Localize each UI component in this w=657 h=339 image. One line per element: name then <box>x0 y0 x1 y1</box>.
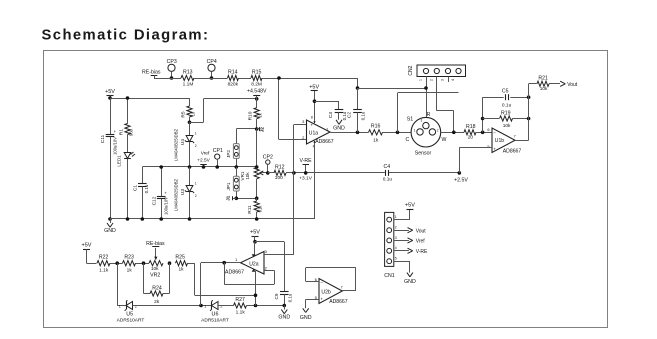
svg-text:2: 2 <box>437 128 439 132</box>
svg-text:R: R <box>427 112 431 118</box>
wire J2 to Vref rail <box>256 129 258 167</box>
wire rail corner down to C2 node <box>357 78 359 88</box>
power +5V (bottom left) <box>83 249 90 251</box>
svg-text:ADR510ART: ADR510ART <box>117 318 145 324</box>
svg-text:U2a: U2a <box>249 262 259 268</box>
capacitor C1 <box>142 167 144 183</box>
svg-text:3: 3 <box>441 79 445 81</box>
capacitor C4 <box>385 170 387 176</box>
svg-text:CP4: CP4 <box>207 59 217 65</box>
svg-text:R18: R18 <box>466 124 476 130</box>
svg-text:LM4040B25IDBZ: LM4040B25IDBZ <box>173 178 178 211</box>
svg-text:1.1k: 1.1k <box>99 268 109 274</box>
svg-text:10k: 10k <box>245 172 250 180</box>
node V-RE label <box>303 164 310 166</box>
wire +5V left column down <box>110 98 112 134</box>
node U2a output drop <box>199 304 203 308</box>
resistor R25 <box>176 261 188 266</box>
svg-text:1: 1 <box>419 79 423 81</box>
ground GND (U2a/C9) <box>284 306 286 310</box>
svg-text:6: 6 <box>487 127 490 132</box>
svg-text:1.1M: 1.1M <box>183 82 194 88</box>
connector CN2 <box>417 65 466 77</box>
wire +5V rail <box>110 98 190 100</box>
node C12/GND-rail <box>159 217 163 221</box>
svg-text:C3: C3 <box>328 112 334 118</box>
wire V-RE to U2a pin3 (vertical) <box>293 173 295 255</box>
wire CN2 pin3 stub <box>448 77 450 83</box>
testpoint CP1 <box>215 154 220 159</box>
svg-text:0.1u: 0.1u <box>361 111 366 120</box>
node U2a output/feedback junction <box>222 261 226 265</box>
svg-text:7: 7 <box>513 134 516 139</box>
svg-text:V-RE: V-RE <box>416 249 428 255</box>
svg-text:10: 10 <box>190 111 195 116</box>
svg-text:R5: R5 <box>180 111 186 117</box>
wire U2a feedback loop <box>224 263 226 285</box>
capacitor C2 <box>357 88 359 110</box>
svg-text:2: 2 <box>195 144 197 148</box>
svg-text:S1: S1 <box>407 116 414 122</box>
svg-text:1: 1 <box>235 257 238 262</box>
node R23/VR2 junction <box>142 261 146 265</box>
wire R24 right riser <box>169 263 171 293</box>
svg-text:GND: GND <box>300 315 312 321</box>
wire U2b feedback loop <box>306 281 319 283</box>
wire ground rail <box>110 218 315 220</box>
power +4.548V label <box>256 95 258 99</box>
svg-text:100u/10V: 100u/10V <box>163 197 168 215</box>
node R18/feedback junction <box>481 131 485 135</box>
resistor R24 <box>144 293 151 295</box>
svg-text:+5V: +5V <box>82 243 92 249</box>
node R16/CN2-pin4 junction <box>396 131 400 135</box>
svg-text:3: 3 <box>265 249 268 254</box>
sensor S1 <box>411 117 441 147</box>
svg-text:10k: 10k <box>151 266 159 272</box>
svg-text:8: 8 <box>311 115 313 119</box>
schematic border frame <box>44 51 608 328</box>
svg-text:J2: J2 <box>259 127 264 133</box>
svg-text:2: 2 <box>195 194 197 198</box>
op-amp U2b AD8667 <box>319 279 342 304</box>
wire V-RE rail <box>294 172 385 174</box>
wire JP1 to J1 node <box>236 191 238 198</box>
capacitor C3 <box>335 109 344 111</box>
svg-text:AD8667: AD8667 <box>329 299 348 305</box>
node U4/U3/Vref junction <box>188 165 192 169</box>
svg-text:Vref: Vref <box>416 239 426 245</box>
svg-text:1: 1 <box>395 215 397 219</box>
resistor R19 <box>483 118 499 120</box>
svg-text:2k: 2k <box>154 299 160 305</box>
svg-text:AD8667: AD8667 <box>503 149 522 155</box>
svg-text:U1b: U1b <box>495 138 505 144</box>
svg-text:1: 1 <box>195 181 197 185</box>
svg-text:Vout: Vout <box>567 82 578 88</box>
svg-text:R1: R1 <box>119 129 125 135</box>
wire U1b pin5 to +2.5V <box>459 147 492 149</box>
node R5 bottom junction <box>188 121 192 125</box>
svg-text:R10: R10 <box>247 111 253 120</box>
op-amp U1b AD8667 <box>492 128 515 153</box>
wire U2a pin3 to V-RE <box>264 254 294 256</box>
potentiometer VR2 <box>149 261 163 266</box>
ground GND (C3) <box>338 112 340 119</box>
wire +4.548V net <box>190 122 204 124</box>
svg-text:RE-bias: RE-bias <box>142 69 161 75</box>
resistor R15 <box>251 75 262 80</box>
svg-text:1: 1 <box>326 126 329 131</box>
svg-text:+: + <box>310 123 313 128</box>
capacitor C5 <box>483 97 504 99</box>
svg-text:0.1u: 0.1u <box>342 111 347 120</box>
svg-text:3: 3 <box>395 236 397 240</box>
power +5V (CN1) <box>406 209 413 211</box>
svg-text:+: + <box>164 190 167 195</box>
diode U4 LM4040B25IDBZ <box>189 122 191 135</box>
svg-text:U1a: U1a <box>309 130 319 136</box>
node R22/R23 junction <box>115 261 119 265</box>
svg-text:2: 2 <box>429 79 433 81</box>
svg-text:Sensor: Sensor <box>415 150 432 156</box>
node V-RE rail / U1a pin3 riser <box>292 171 296 175</box>
node C2 top junction <box>356 86 360 90</box>
wire U6 to R27 <box>218 305 234 307</box>
capacitor C12 <box>161 167 163 196</box>
resistor R1 <box>127 98 129 124</box>
svg-text:10k: 10k <box>540 86 548 92</box>
svg-text:C9: C9 <box>274 293 279 299</box>
svg-text:AD8667: AD8667 <box>225 269 244 275</box>
resistor R14 <box>205 78 228 80</box>
node CP3/rail <box>170 76 174 80</box>
svg-text:+2.5V: +2.5V <box>197 157 210 163</box>
svg-text:1k: 1k <box>178 266 184 272</box>
svg-text:JP1: JP1 <box>226 182 231 190</box>
jumper JP2 <box>233 144 239 159</box>
op-amp U1a AD8667 <box>307 120 331 144</box>
node C5 right junction <box>527 95 531 99</box>
wire supply to C3 <box>315 101 340 103</box>
resistor R11 <box>256 198 258 201</box>
wire Vref rail <box>142 166 256 168</box>
wire U1a output <box>331 132 369 134</box>
node U1a output junction <box>356 131 360 135</box>
wire R25 to U2a supply node <box>194 263 196 295</box>
svg-text:GND: GND <box>278 314 290 320</box>
wire U1a pin2 input <box>279 139 307 141</box>
svg-text:+5V: +5V <box>250 230 260 236</box>
svg-text:CP3: CP3 <box>167 59 177 65</box>
svg-text:5: 5 <box>487 144 490 149</box>
LED LED1 <box>124 153 131 159</box>
svg-text:W: W <box>442 137 447 143</box>
wire sensor W to R18 <box>441 132 464 134</box>
power +5V (U2a) <box>252 236 259 238</box>
ground GND (CN1 pin5) <box>407 273 410 277</box>
svg-text:AD8667: AD8667 <box>315 139 334 145</box>
svg-text:Schematic Diagram:: Schematic Diagram: <box>42 28 210 44</box>
svg-text:C12: C12 <box>152 196 158 205</box>
svg-text:2: 2 <box>265 265 268 270</box>
svg-text:R12: R12 <box>275 164 285 170</box>
svg-text:CP1: CP1 <box>213 148 223 154</box>
node VR1 top <box>255 165 259 169</box>
node C11/GND-rail <box>108 217 112 221</box>
power +5V (top left) <box>107 95 114 97</box>
svg-text:1k: 1k <box>373 138 379 144</box>
svg-text:10k: 10k <box>503 123 511 129</box>
wire U2a power pin top <box>254 242 256 256</box>
node CP1/Vref-rail <box>215 165 219 169</box>
svg-text:CN1: CN1 <box>384 273 394 279</box>
node CP2/wiper junction <box>266 171 270 175</box>
wire JP2 to J2 node <box>236 129 238 144</box>
wire supply to C9 <box>255 241 284 243</box>
svg-text:4: 4 <box>451 79 455 81</box>
svg-text:R14: R14 <box>228 70 238 76</box>
potentiometer VR1 <box>254 167 259 179</box>
svg-text:R25: R25 <box>175 255 185 261</box>
svg-text:+3.1V: +3.1V <box>299 176 312 182</box>
svg-text:+2.5V: +2.5V <box>454 177 468 183</box>
svg-text:R19: R19 <box>501 110 511 116</box>
resistor R22 <box>97 261 110 266</box>
wire CN2 pin4 drop <box>397 93 399 132</box>
wire U1b feedback riser <box>482 97 484 132</box>
testpoint CP4 <box>208 64 215 71</box>
wire LED1 to ground rail <box>127 159 129 219</box>
wire JP2 bottom to Vref rail <box>236 158 238 167</box>
wire R22-R23 node to U5 <box>117 263 119 305</box>
svg-text:+4.548V: +4.548V <box>247 89 267 95</box>
node W/CN2-pin2 junction <box>452 131 456 135</box>
svg-text:2: 2 <box>395 226 397 230</box>
svg-text:7: 7 <box>340 285 343 290</box>
svg-text:0.1u: 0.1u <box>502 103 512 109</box>
svg-text:1k: 1k <box>127 268 133 274</box>
capacitor C11 <box>106 134 115 136</box>
wire JP1 top to Vref rail <box>236 167 238 176</box>
svg-text:Vout: Vout <box>416 228 427 234</box>
svg-text:V-RE: V-RE <box>300 158 313 164</box>
svg-text:0.1u: 0.1u <box>383 177 393 183</box>
jumper JP1 <box>233 176 239 191</box>
node J1 label <box>235 197 239 201</box>
wire U1a pin3 input <box>294 124 307 126</box>
svg-text:−: − <box>320 280 323 285</box>
resistor R10 <box>256 99 258 108</box>
node V-RE arrow (CN1 pin4) <box>394 250 409 252</box>
wire U2b pin5 to ground <box>306 299 319 301</box>
wire U1b output riser <box>515 140 529 142</box>
svg-text:VR2: VR2 <box>150 272 160 278</box>
svg-text:Vref: Vref <box>201 150 210 156</box>
connector CN1 <box>385 212 394 266</box>
node +5V junction <box>108 96 112 100</box>
svg-text:+5V: +5V <box>405 203 415 209</box>
resistor R12 <box>268 172 274 174</box>
wire U2a output <box>201 262 241 264</box>
node LED1/GND-rail <box>126 217 130 221</box>
node Vout arrow (CN1 pin2) <box>394 230 409 232</box>
svg-text:GND: GND <box>404 279 416 285</box>
diode U5 ADR510ART <box>126 302 133 310</box>
svg-text:GND: GND <box>333 126 345 132</box>
svg-text:U2b: U2b <box>321 290 331 296</box>
svg-text:20: 20 <box>468 134 474 140</box>
svg-text:+: + <box>320 297 323 302</box>
svg-text:C11: C11 <box>100 134 106 143</box>
svg-text:R22: R22 <box>99 255 109 261</box>
svg-text:C2: C2 <box>346 112 352 118</box>
wire CN2 pin1 to R electrode <box>426 77 428 123</box>
wire U2a output drop to U5-U6 node <box>200 263 202 306</box>
wire U2a power pin bottom <box>255 271 257 306</box>
svg-text:R21: R21 <box>538 76 548 82</box>
node R15 / U1a pin2 junction <box>277 76 281 80</box>
svg-text:C4: C4 <box>383 164 390 170</box>
resistor R21 <box>529 83 537 85</box>
svg-text:100: 100 <box>275 175 283 181</box>
svg-text:1: 1 <box>414 128 416 132</box>
svg-text:1.1k: 1.1k <box>236 309 246 315</box>
wire R24 left riser <box>143 263 145 293</box>
resistor R27 <box>234 303 247 308</box>
resistor R5 <box>189 98 191 106</box>
diode U3 LM4040B25IDBZ <box>189 167 191 186</box>
svg-text:8.2M: 8.2M <box>251 81 262 87</box>
node Vout arrow <box>560 81 565 84</box>
svg-text:R11: R11 <box>247 205 253 214</box>
svg-text:0.1u: 0.1u <box>287 293 292 302</box>
node Vref label stub <box>203 165 205 167</box>
svg-text:960: 960 <box>129 128 134 136</box>
node +4.548V <box>255 97 259 101</box>
svg-text:0.1u: 0.1u <box>144 184 149 193</box>
svg-text:CN2: CN2 <box>408 65 414 75</box>
svg-text:LM4040B25IDBZ: LM4040B25IDBZ <box>173 128 178 161</box>
svg-text:100u/10V: 100u/10V <box>113 137 118 155</box>
svg-text:ADR510ART: ADR510ART <box>201 318 229 324</box>
node JP2/Vref-rail <box>235 165 239 169</box>
wire U5 to U6 <box>133 305 212 307</box>
wire C2-node to CN2 pin1 <box>358 88 427 90</box>
node C1/GND-rail <box>141 217 145 221</box>
node CP4/rail <box>210 76 214 80</box>
node U1a supply junction <box>313 99 317 103</box>
node Vref arrow (CN1 pin3) <box>394 240 409 242</box>
node J2 <box>255 127 259 131</box>
svg-text:+: + <box>493 147 496 152</box>
svg-text:−: − <box>493 131 496 136</box>
wire CN1 pin5 to ground <box>394 261 410 263</box>
svg-text:1: 1 <box>195 131 197 135</box>
svg-text:3: 3 <box>302 119 305 124</box>
svg-text:CP2: CP2 <box>263 155 273 161</box>
svg-text:5: 5 <box>395 257 397 261</box>
resistor R18 <box>464 130 476 135</box>
svg-text:4: 4 <box>395 246 397 250</box>
node C12/Vref-rail <box>159 165 163 169</box>
resistor R16 <box>369 130 383 135</box>
wire R1 to LED1 <box>127 135 129 153</box>
node C9/GND junction <box>283 304 287 308</box>
testpoint CP2 <box>266 160 270 164</box>
svg-text:3: 3 <box>421 118 423 122</box>
svg-text:+5V: +5V <box>309 84 319 90</box>
svg-text:R16: R16 <box>371 124 381 130</box>
svg-text:LED1: LED1 <box>117 155 122 167</box>
node VR1/R11/J1 junction <box>255 197 259 201</box>
node U3/GND-rail <box>188 217 192 221</box>
svg-text:R23: R23 <box>124 255 134 261</box>
node R1 top <box>126 96 130 100</box>
svg-text:JP2: JP2 <box>226 150 231 158</box>
node +2.5V <box>458 171 462 175</box>
svg-text:U3: U3 <box>180 189 186 195</box>
svg-text:−: − <box>310 139 313 144</box>
node CN2 pin1 / C2 rail <box>424 86 428 90</box>
node VR2/R25 junction <box>168 261 172 265</box>
svg-text:J1: J1 <box>226 195 231 201</box>
testpoint CP3 <box>168 64 175 71</box>
svg-text:R24: R24 <box>152 285 162 291</box>
capacitor C9 <box>280 291 289 293</box>
svg-text:+: + <box>114 129 117 134</box>
svg-text:R27: R27 <box>235 297 245 303</box>
diode U6 ADR510ART <box>212 302 219 310</box>
wire CN1 pin1 to +5V <box>394 219 410 221</box>
svg-text:R13: R13 <box>183 70 193 76</box>
node R19 right junction <box>527 117 531 121</box>
svg-text:C1: C1 <box>133 185 139 191</box>
svg-text:R15: R15 <box>252 70 262 76</box>
resistor R23 <box>123 261 136 266</box>
svg-text:C: C <box>406 137 410 143</box>
svg-text:C5: C5 <box>502 88 509 94</box>
svg-text:U5: U5 <box>126 312 133 318</box>
svg-text:GND: GND <box>104 228 116 234</box>
wire VR1 bottom <box>256 179 258 199</box>
power +5V (U1a) <box>311 90 318 92</box>
node R25-path junction <box>254 294 258 298</box>
svg-text:+5V: +5V <box>105 89 115 95</box>
wire U1a power pin 8 <box>314 101 316 123</box>
node R11/GND-rail <box>255 217 259 221</box>
svg-text:61k: 61k <box>257 205 262 213</box>
node R27/U2a-supply junction <box>254 304 258 308</box>
ground GND (U2b pin5) <box>303 308 306 312</box>
resistor R13 <box>166 78 181 80</box>
node U2a supply junction <box>253 240 257 244</box>
wire U1a power pin 4 to ground rail <box>314 141 316 219</box>
op-amp U2a AD8667 <box>241 252 265 275</box>
svg-text:U6: U6 <box>212 312 219 318</box>
svg-text:820k: 820k <box>228 81 239 87</box>
node feedback/R19 junction <box>481 117 485 121</box>
ground GND (left rail) <box>110 219 112 223</box>
svg-text:U4: U4 <box>180 139 186 145</box>
wire CN2 pin2 path <box>436 77 438 111</box>
